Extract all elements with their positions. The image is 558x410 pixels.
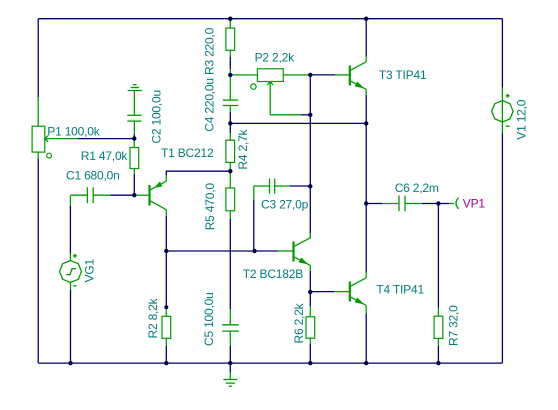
- junction T1 collector / R2 / T2 base: [164, 249, 168, 253]
- wire top rail: [38, 18, 502, 20]
- junction P2 wiper: [308, 113, 312, 117]
- junction C3 left / T2 base wire: [252, 249, 256, 253]
- junction R1 bottom / C1 / T1 base: [132, 193, 136, 197]
- capacitor C6: [366, 203, 382, 205]
- wire VG1 to bottom rail: [70, 283, 72, 291]
- junction VG1 / bottom rail: [68, 361, 72, 365]
- svg-text:T1 BC212: T1 BC212: [161, 146, 214, 160]
- wire T2 emitter down: [309, 271, 311, 292]
- capacitor C1: [70, 187, 110, 203]
- svg-text:R4 2,7k: R4 2,7k: [236, 128, 250, 169]
- junction R7 / bottom rail: [436, 361, 440, 365]
- svg-text:C3 27,0p: C3 27,0p: [261, 198, 309, 212]
- svg-text:R2 8,2k: R2 8,2k: [146, 297, 160, 338]
- wire C3 left down: [253, 186, 255, 200]
- wire T4 emitter down: [365, 314, 367, 363]
- svg-text:P1 100,0k: P1 100,0k: [47, 124, 100, 138]
- svg-text:C1 680,0n: C1 680,0n: [66, 169, 120, 183]
- svg-text:P2 2,2k: P2 2,2k: [255, 51, 295, 65]
- generator VG1: [60, 254, 82, 286]
- wire right vertical (V1 branch upper): [501, 19, 503, 88]
- source V1: [492, 94, 513, 126]
- wire left vertical (P1 branch lower): [37, 152, 39, 159]
- ground (above C2): [128, 85, 142, 91]
- svg-text:T2 BC182B: T2 BC182B: [243, 267, 303, 281]
- junction T3 emitter / output rail: [364, 121, 368, 125]
- svg-text:C6 2,2m: C6 2,2m: [395, 181, 439, 195]
- svg-text:VG1: VG1: [83, 258, 97, 282]
- junction T2 emitter / R6 / T4 base: [308, 290, 312, 294]
- junction P2 right / T3 base: [308, 73, 312, 77]
- junction R3 bottom / C4 / P2 left: [228, 73, 232, 77]
- wire right vertical (V1 branch lower): [501, 122, 503, 133]
- junction R2 pin: [164, 305, 168, 309]
- capacitor C5: [222, 309, 239, 346]
- transistor T2: [294, 233, 311, 271]
- svg-text:T4 TIP41: T4 TIP41: [376, 283, 424, 297]
- junction R3 top / top rail: [228, 17, 232, 21]
- wire T3 emitter down: [365, 95, 367, 123]
- wire T2 emitter to T4 base: [310, 291, 334, 293]
- junction C3 right / T2 collector line: [308, 184, 312, 188]
- transistor T4: [350, 272, 366, 314]
- junction R2 / bottom rail: [164, 361, 168, 365]
- svg-text:VP1: VP1: [463, 196, 486, 210]
- junction T3 collector / top rail: [364, 17, 368, 21]
- wire T1 emitter to R4/R5 node: [166, 171, 230, 175]
- junction C4 bottom / R4 top: [228, 121, 232, 125]
- svg-text:R3 220,0: R3 220,0: [203, 27, 217, 75]
- svg-text:R1 47,0k: R1 47,0k: [81, 149, 129, 163]
- junction T4 emitter / bottom rail: [364, 361, 368, 365]
- svg-text:C2 100,0u: C2 100,0u: [150, 90, 164, 144]
- resistor R1: [133, 139, 135, 142]
- wire left vertical (P1 branch upper): [37, 19, 39, 97]
- wire T1 collector down: [165, 216, 167, 251]
- resistor R5: [229, 171, 231, 188]
- wire bootstrap y=123: [230, 122, 366, 124]
- resistor R3: [229, 19, 231, 21]
- transistor T1: [150, 176, 167, 217]
- wire x=310 vertical (P2 right down to T2 collector): [309, 75, 311, 115]
- wire C1 left down to VG1: [69, 195, 71, 206]
- resistor R7: [437, 204, 439, 308]
- svg-text:R7 32,0: R7 32,0: [447, 305, 461, 346]
- resistor R2: [165, 251, 167, 307]
- capacitor C4: [223, 75, 238, 112]
- capacitor C2: [127, 91, 141, 135]
- resistor R4: [229, 123, 231, 133]
- svg-text:R5 470,0: R5 470,0: [203, 183, 217, 231]
- svg-text:C4 220,0u: C4 220,0u: [203, 78, 217, 132]
- probe VP1: [438, 203, 449, 205]
- wire bottom rail: [38, 362, 502, 364]
- junction R4 bottom / R5 top / T1 emitter: [228, 169, 232, 173]
- svg-text:T3 TIP41: T3 TIP41: [379, 68, 427, 82]
- wire T1 collector to T2 base: [166, 250, 278, 252]
- svg-text:R6 2,2k: R6 2,2k: [292, 302, 306, 343]
- ground (below bottom rail): [229, 363, 231, 372]
- capacitor C3: [254, 178, 290, 193]
- potentiometer P2: [230, 69, 310, 115]
- wire T1 base: [134, 194, 148, 196]
- transistor T3: [350, 56, 366, 95]
- wire output vertical x=366: [365, 123, 367, 203]
- svg-text:V1 12,0: V1 12,0: [514, 99, 528, 139]
- junction C6 right / R7 top / VP1: [436, 201, 440, 205]
- potentiometer P1: [32, 126, 78, 158]
- junction P1 wiper / C2 / R1 top: [132, 136, 136, 140]
- junction C5-ground / bottom rail: [228, 361, 232, 365]
- wire T3 collector up: [365, 19, 367, 56]
- junction C6 left / T4 collector: [364, 201, 368, 205]
- wire P2 right to T3 base: [310, 74, 335, 76]
- junction R6 / bottom rail: [308, 361, 312, 365]
- svg-text:C5 100,0u: C5 100,0u: [202, 292, 216, 346]
- wire P1 wiper to node: [78, 138, 134, 140]
- resistor R6: [309, 292, 311, 306]
